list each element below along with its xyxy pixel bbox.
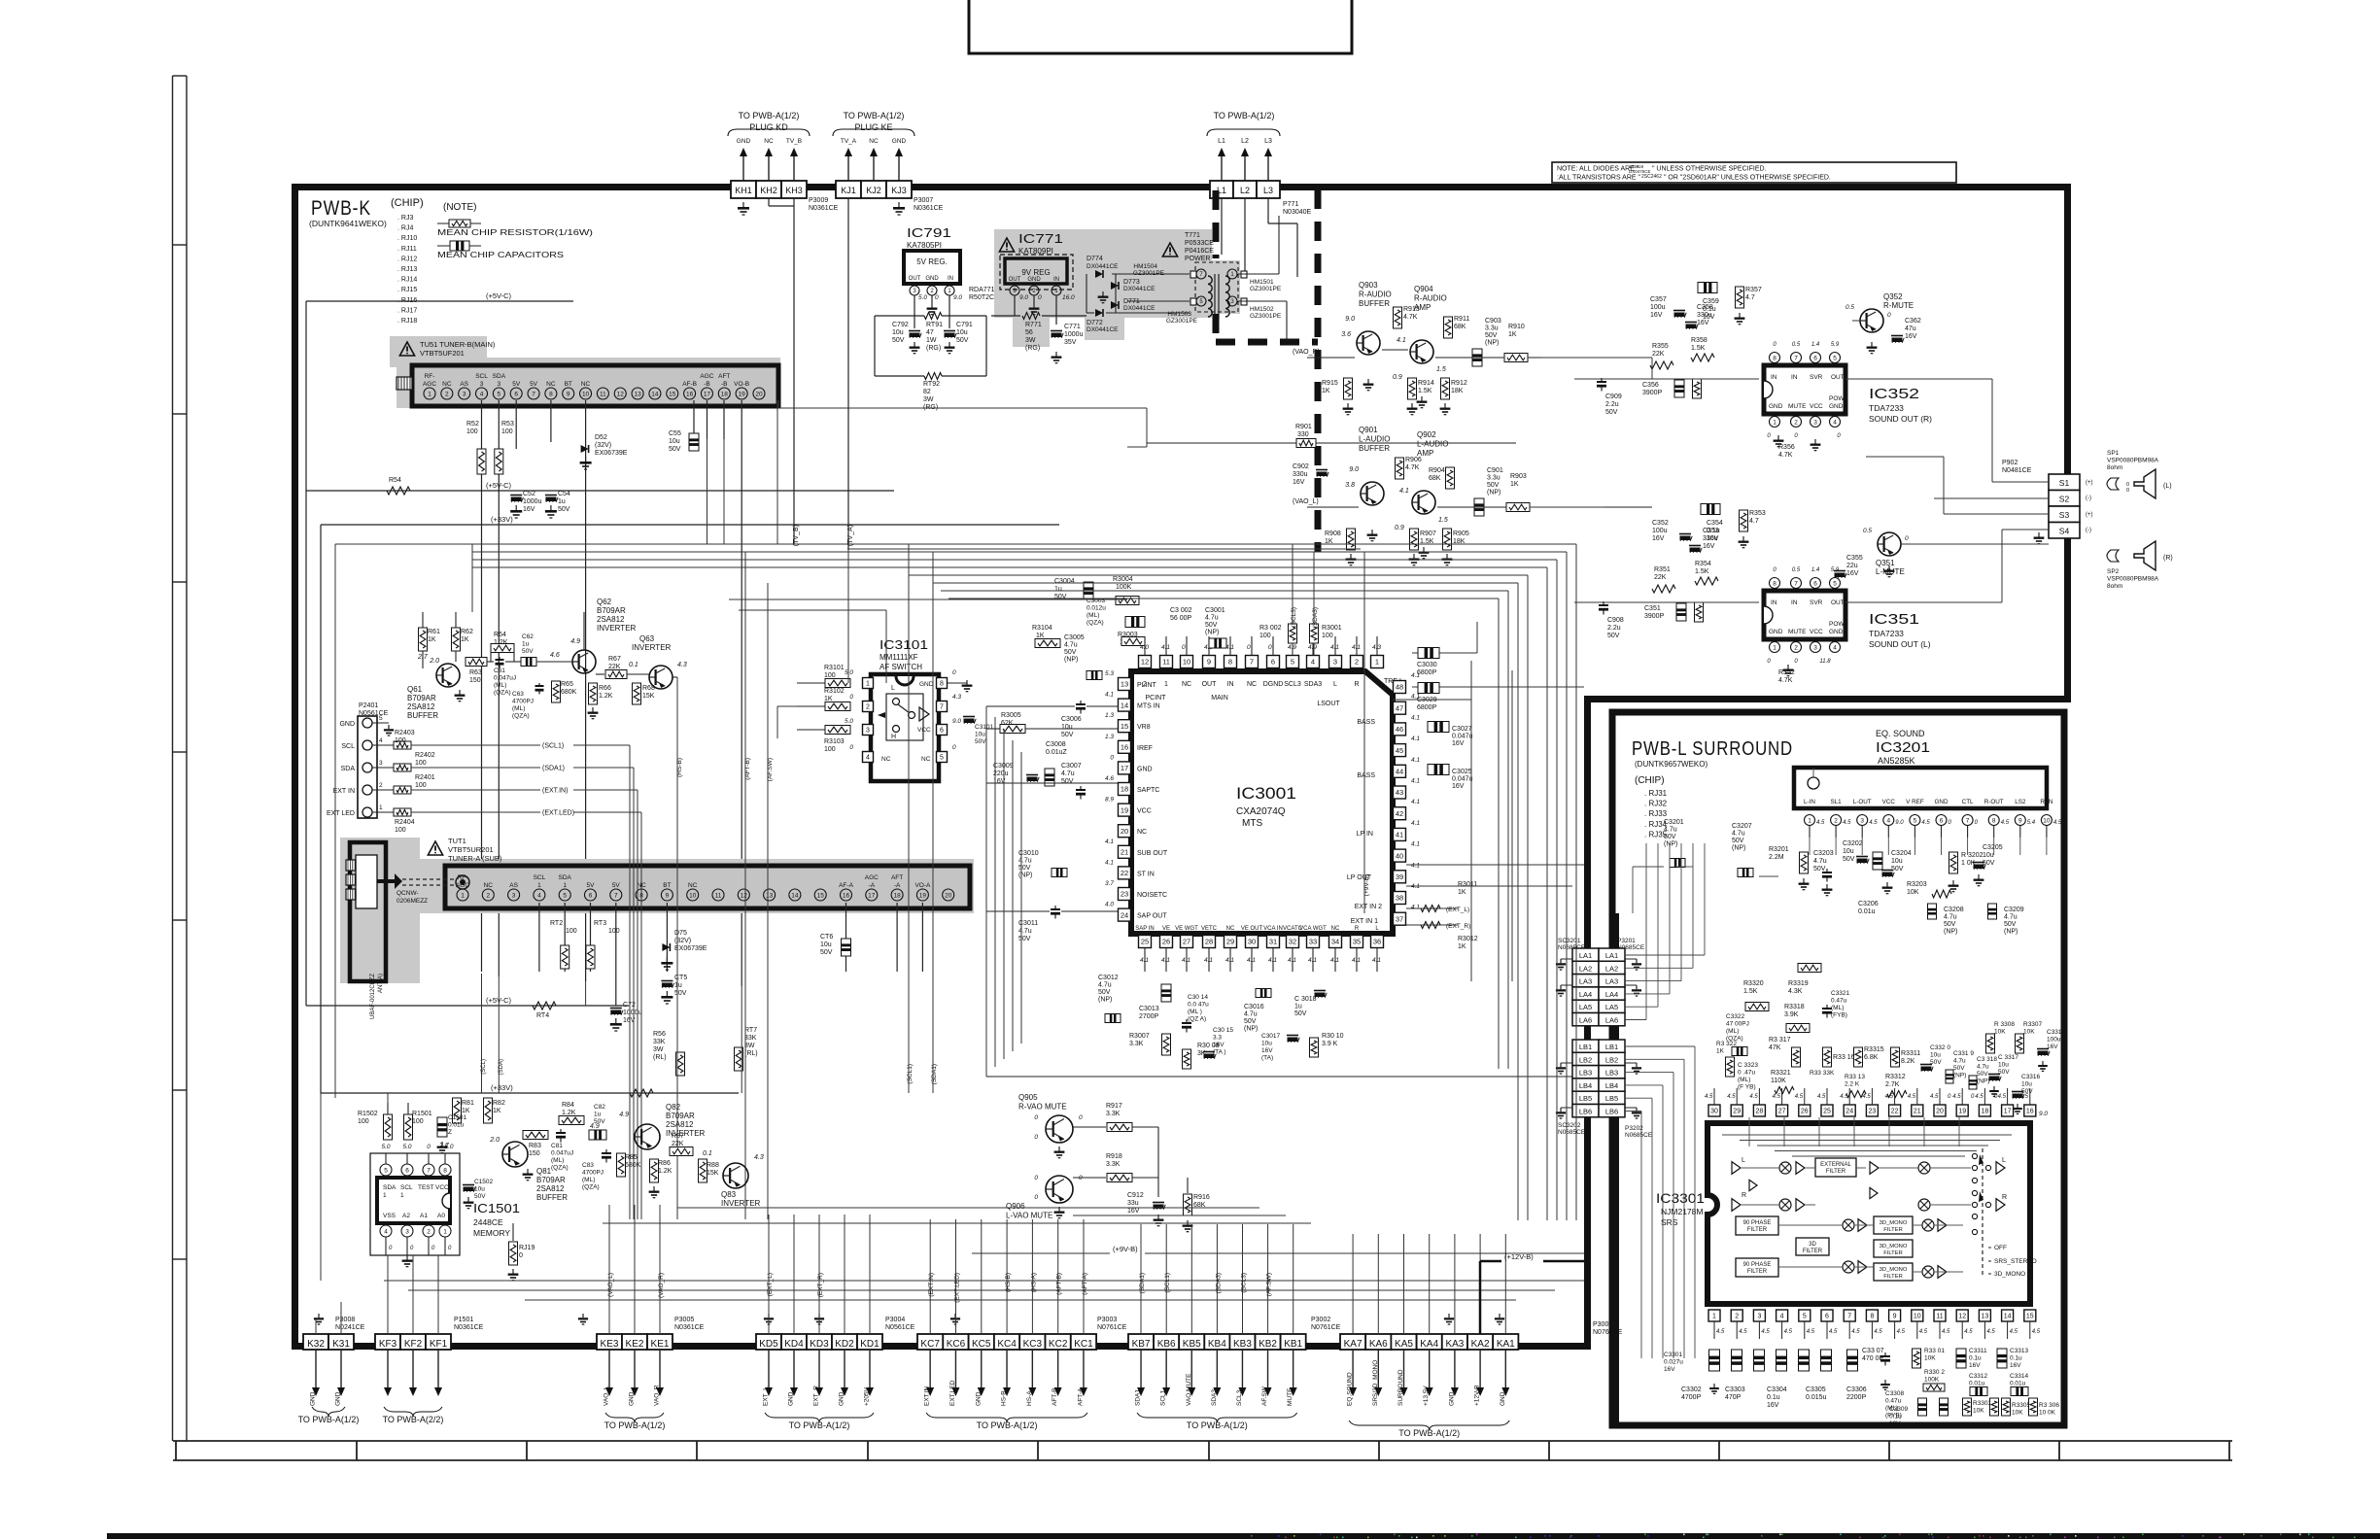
resistor RT91 [924, 313, 943, 353]
svg-text:MEAN CHIP CAPACITORS: MEAN CHIP CAPACITORS [437, 250, 564, 259]
transistor Q81 buffer [438, 1137, 568, 1202]
svg-text:TUT1: TUT1 [448, 837, 466, 845]
svg-text:1.5K: 1.5K [1691, 345, 1706, 352]
svg-text:R3307: R3307 [2023, 1021, 2043, 1028]
svg-text:GZ3001PE: GZ3001PE [1250, 313, 1282, 320]
svg-text:R903: R903 [1510, 473, 1527, 480]
svg-text:IN: IN [1227, 681, 1234, 688]
PWB-L board border [1612, 712, 2064, 1425]
svg-text:LB4: LB4 [1579, 1081, 1592, 1090]
svg-text:SCL: SCL [534, 874, 546, 881]
svg-text:SRS/3D_MONO: SRS/3D_MONO [1372, 1360, 1379, 1406]
svg-text:1000u: 1000u [623, 1010, 642, 1016]
svg-text:S1: S1 [2059, 478, 2070, 488]
svg-text:C3005: C3005 [1064, 634, 1085, 641]
PWB-K board border [292, 184, 2071, 1350]
svg-text:DX0441CE: DX0441CE [1087, 263, 1119, 270]
capacitor C81 [551, 1129, 573, 1172]
svg-text:R3 317: R3 317 [1769, 1037, 1791, 1044]
IC351 passives cluster [1599, 504, 1863, 685]
svg-text:21: 21 [1914, 1109, 1921, 1115]
svg-text:VCA WGT: VCA WGT [1299, 926, 1327, 932]
svg-text:90 PHASE: 90 PHASE [1743, 1220, 1772, 1226]
svg-text:KA4: KA4 [1420, 1339, 1438, 1350]
svg-text:TO PWB-A(1/2): TO PWB-A(1/2) [739, 111, 800, 120]
svg-text:EXT LED: EXT LED [327, 810, 355, 817]
svg-text:R63: R63 [469, 669, 482, 676]
svg-text:P1501: P1501 [454, 1317, 473, 1323]
svg-text:SOUND OUT (L): SOUND OUT (L) [1869, 639, 1931, 649]
svg-text:R355: R355 [1652, 343, 1669, 350]
svg-text:BUFFER: BUFFER [536, 1193, 568, 1202]
svg-text:C3206: C3206 [1858, 901, 1879, 907]
svg-text:22: 22 [1891, 1109, 1899, 1115]
transistor Q903 R-AUDIO BUFFER [1341, 281, 1392, 391]
svg-text:5: 5 [1833, 580, 1837, 587]
svg-text:100: 100 [412, 1118, 424, 1125]
svg-text:R3305: R3305 [2012, 1402, 2031, 1409]
svg-text:Q903: Q903 [1359, 281, 1378, 290]
svg-text:C3004: C3004 [1054, 578, 1075, 585]
svg-text:VTBT5UR201: VTBT5UR201 [448, 845, 494, 854]
svg-text:(DUNTK9641WEKO): (DUNTK9641WEKO) [309, 219, 387, 228]
svg-text:. RJ11: . RJ11 [397, 246, 417, 253]
svg-text:RT7: RT7 [744, 1027, 757, 1034]
svg-text:(EXT_L): (EXT_L) [1446, 907, 1469, 913]
svg-text:8.9: 8.9 [1105, 797, 1114, 804]
svg-text:NC: NC [484, 882, 494, 889]
svg-text:TO PWB-A(1/2): TO PWB-A(1/2) [1214, 111, 1275, 120]
svg-text:10u: 10u [474, 1186, 485, 1193]
svg-text:4.5: 4.5 [1869, 820, 1878, 826]
svg-text:C3312: C3312 [1969, 1373, 1988, 1380]
svg-text:4.1: 4.1 [1352, 957, 1361, 964]
svg-text:4.7u: 4.7u [1064, 642, 1078, 649]
svg-text:POW: POW [1829, 621, 1845, 628]
svg-text:C332 0: C332 0 [1930, 1044, 1950, 1051]
svg-text:3.7: 3.7 [1105, 880, 1114, 887]
svg-text:4.1: 4.1 [1330, 644, 1339, 651]
svg-text:R330 2: R330 2 [1924, 1369, 1945, 1376]
PWB-L title [1632, 738, 1793, 838]
svg-text:4: 4 [866, 755, 870, 762]
svg-text:4.7u: 4.7u [1061, 770, 1075, 777]
transistor Q904 R-AUDIO AMP [1393, 285, 1447, 408]
capacitor CT6 [820, 934, 851, 956]
svg-text:L-AUDIO: L-AUDIO [1417, 440, 1448, 449]
svg-text:4.5: 4.5 [1919, 1329, 1928, 1335]
svg-text:R906: R906 [1405, 457, 1422, 463]
svg-text:50V: 50V [1944, 921, 1956, 928]
svg-text:9: 9 [1207, 658, 1211, 667]
svg-text:GND: GND [1769, 403, 1783, 410]
svg-text:(TA): (TA) [1261, 1055, 1273, 1062]
svg-text:CT6: CT6 [820, 934, 833, 941]
svg-text:R84: R84 [562, 1102, 574, 1109]
svg-text:CTL: CTL [1962, 799, 1974, 805]
svg-text:P3202: P3202 [1625, 1125, 1643, 1132]
resistor R771 [1022, 313, 1042, 353]
svg-text:R-MUTE: R-MUTE [1883, 301, 1914, 310]
IC3301 bottom pins [1708, 1310, 2041, 1339]
svg-text:13: 13 [1121, 680, 1128, 689]
svg-text:48: 48 [1396, 683, 1403, 692]
svg-text:C3012: C3012 [1098, 975, 1119, 981]
speaker SP2 [2107, 541, 2173, 590]
svg-text:1: 1 [1808, 817, 1811, 824]
svg-text:50V: 50V [820, 949, 833, 956]
svg-text:2SC2462: 2SC2462 [1641, 174, 1662, 180]
svg-text:12: 12 [1958, 1314, 1966, 1320]
svg-text:Q901: Q901 [1359, 426, 1378, 434]
connector K32 K31 [298, 1314, 365, 1424]
note: mean chip resistor / capacitors [437, 202, 593, 259]
svg-text:9.0: 9.0 [1019, 294, 1028, 301]
svg-text:1K: 1K [461, 636, 469, 643]
svg-text:EXT IN: EXT IN [333, 788, 355, 795]
svg-text:0.047u: 0.047u [1452, 776, 1473, 783]
svg-text:1u: 1u [522, 641, 530, 648]
svg-text:0 .47u: 0 .47u [1738, 1070, 1755, 1077]
svg-text:C359: C359 [1703, 298, 1719, 305]
svg-text:LB4: LB4 [1605, 1081, 1618, 1090]
wire drops to bottom connectors [316, 1205, 1505, 1334]
svg-text:VCC: VCC [1882, 799, 1896, 805]
svg-text:0: 0 [1268, 644, 1272, 651]
svg-text:0.01u: 0.01u [1969, 1381, 1985, 1387]
svg-text:LA3: LA3 [1605, 977, 1618, 986]
svg-text:10u: 10u [669, 438, 680, 445]
svg-text:4.7u: 4.7u [1977, 1064, 1989, 1071]
svg-text:AFT: AFT [891, 874, 903, 881]
svg-text:R914: R914 [1418, 380, 1434, 387]
svg-text:100u: 100u [1652, 528, 1668, 534]
svg-text:FILTER: FILTER [1747, 1227, 1768, 1233]
svg-text:D771: D771 [1123, 298, 1140, 305]
sheet frame: bottom zone ruler [173, 1441, 2232, 1460]
svg-text:100: 100 [824, 746, 836, 753]
svg-text:4.7u: 4.7u [1664, 827, 1677, 834]
svg-text:L-AUDIO: L-AUDIO [1359, 435, 1390, 444]
svg-text:AGC: AGC [423, 381, 436, 388]
svg-text:R62: R62 [461, 629, 473, 635]
svg-text:4.5: 4.5 [1807, 1329, 1815, 1335]
svg-text:R908: R908 [1325, 530, 1341, 537]
svg-text:1K: 1K [428, 636, 436, 643]
svg-text:(+33V): (+33V) [491, 1083, 513, 1092]
svg-text:Q905: Q905 [1018, 1093, 1038, 1102]
svg-text:SDA: SDA [383, 1184, 397, 1191]
mute transistor Q351 [1863, 528, 1909, 577]
svg-text:Q902: Q902 [1417, 430, 1436, 439]
svg-text:AFT-A: AFT-A [1077, 1387, 1084, 1406]
svg-text:P902: P902 [2002, 460, 2018, 466]
sound out IC351 [1764, 567, 1931, 676]
svg-text:LB3: LB3 [1605, 1069, 1618, 1078]
transistor Q82 inverter [590, 1103, 706, 1149]
svg-text:3W: 3W [1025, 337, 1036, 344]
capacitor C83 [582, 1149, 611, 1191]
svg-text:1: 1 [1164, 681, 1168, 688]
svg-text:LB5: LB5 [1579, 1094, 1592, 1103]
svg-text:IC3201: IC3201 [1876, 739, 1930, 756]
svg-text:35: 35 [1353, 938, 1361, 946]
sheet frame: bottom black strip [107, 1533, 2380, 1539]
svg-text:16V: 16V [1846, 570, 1859, 577]
svg-text:TV_B: TV_B [786, 138, 802, 145]
svg-text:R356: R356 [1778, 444, 1795, 451]
svg-text:8: 8 [1773, 580, 1776, 587]
svg-text:C3314: C3314 [2010, 1373, 2029, 1380]
svg-text:(32V): (32V) [595, 442, 611, 449]
capacitor C792 [892, 322, 921, 354]
svg-text:SCL3: SCL3 [1236, 1389, 1243, 1406]
voltage regulator IC791 [904, 225, 1010, 301]
svg-text:2.0: 2.0 [429, 658, 439, 665]
svg-text:KE3: KE3 [601, 1339, 619, 1350]
svg-text:VCC: VCC [1810, 629, 1823, 635]
svg-text:C54: C54 [558, 491, 570, 497]
svg-text:R3311: R3311 [1901, 1050, 1920, 1057]
svg-text:4.5: 4.5 [1930, 1094, 1939, 1100]
svg-text:UBAF-0012CEZZ: UBAF-0012CEZZ [370, 974, 376, 1019]
svg-text:0.047uJ: 0.047uJ [494, 675, 516, 682]
svg-text:4.5: 4.5 [1942, 1329, 1950, 1335]
svg-text:0.1u: 0.1u [1969, 1355, 1982, 1362]
svg-text:4.5: 4.5 [1986, 1329, 1995, 1335]
svg-text:16: 16 [2026, 1109, 2034, 1115]
svg-text:3D_MONO: 3D_MONO [1994, 1271, 2025, 1278]
svg-text:0: 0 [1079, 1114, 1083, 1121]
svg-text:(+): (+) [2086, 480, 2093, 486]
svg-text:R3315: R3315 [1864, 1046, 1884, 1053]
svg-text:C3001: C3001 [1205, 607, 1225, 614]
svg-text:50V: 50V [1605, 409, 1618, 416]
svg-text:50V: 50V [1061, 732, 1074, 738]
svg-text:R916: R916 [1193, 1194, 1210, 1201]
svg-text:2: 2 [1735, 1314, 1739, 1320]
svg-text:GND: GND [339, 721, 355, 728]
wire PWB-L fan LB rows [1625, 1046, 1695, 1358]
svg-text:TO PWB-A(1/2): TO PWB-A(1/2) [844, 111, 905, 120]
svg-text:R56: R56 [653, 1031, 666, 1038]
svg-text:3D_MONO: 3D_MONO [1880, 1267, 1908, 1273]
svg-text:(ML): (ML) [582, 1177, 595, 1183]
resistor R903 [1506, 473, 1530, 512]
svg-text:4.5: 4.5 [1716, 1329, 1725, 1335]
svg-text:9: 9 [567, 391, 570, 397]
svg-text:10K: 10K [1907, 889, 1919, 896]
svg-text:VCC: VCC [1137, 808, 1152, 815]
svg-text:4.5: 4.5 [1975, 1094, 1983, 1100]
svg-text:(NP): (NP) [1098, 997, 1112, 1004]
svg-text:50V: 50V [1607, 633, 1620, 639]
svg-text:2.0: 2.0 [489, 1137, 500, 1144]
svg-text:KJ1: KJ1 [841, 186, 856, 195]
svg-text:R33 01: R33 01 [1924, 1348, 1945, 1354]
svg-text:(+9V-B): (+9V-B) [1363, 874, 1370, 896]
svg-text:R33 16: R33 16 [1833, 1054, 1855, 1061]
eq sound IC3201 [1794, 729, 2062, 838]
svg-text:R915: R915 [1322, 380, 1338, 387]
svg-text:100: 100 [501, 428, 513, 435]
svg-text:4.5: 4.5 [1952, 1094, 1961, 1100]
svg-text:(NP): (NP) [1664, 841, 1677, 848]
svg-text:KA1: KA1 [1497, 1339, 1515, 1350]
svg-text:1000u: 1000u [523, 498, 542, 505]
capacitor C903 [1472, 318, 1501, 366]
svg-text:SCL: SCL [341, 743, 355, 750]
svg-text:110K: 110K [1771, 1078, 1786, 1084]
svg-text:VE: VE [1162, 926, 1170, 932]
svg-text:1.5K: 1.5K [1418, 388, 1432, 394]
svg-text:R3303: R3303 [1973, 1400, 1992, 1407]
svg-text:VO-A: VO-A [914, 882, 931, 889]
svg-text:C356: C356 [1642, 382, 1659, 389]
svg-text:C791: C791 [956, 322, 973, 328]
svg-text:LA4: LA4 [1605, 990, 1618, 999]
svg-text:23: 23 [1121, 890, 1128, 899]
svg-text:4.1: 4.1 [1411, 757, 1420, 764]
svg-text:SDA1: SDA1 [1135, 1389, 1142, 1406]
svg-text:C3205: C3205 [1983, 844, 2003, 851]
svg-text:33: 33 [1309, 938, 1317, 946]
svg-text:0: 0 [1247, 644, 1251, 651]
svg-text:8: 8 [1773, 355, 1776, 361]
svg-text:0.047u: 0.047u [1452, 734, 1473, 740]
svg-text:(TA ): (TA ) [1213, 1049, 1226, 1056]
svg-text:C3017: C3017 [1261, 1033, 1281, 1040]
svg-text:L: L [891, 685, 895, 692]
svg-text:50V: 50V [1064, 649, 1077, 656]
svg-text:9.0: 9.0 [952, 718, 961, 725]
svg-text:R81: R81 [462, 1100, 474, 1107]
svg-text:(RL): (RL) [653, 1054, 667, 1061]
svg-text:5V: 5V [612, 882, 621, 889]
svg-text:2448CE: 2448CE [473, 1217, 503, 1227]
svg-text:(QZA): (QZA) [582, 1184, 600, 1191]
svg-text:GZ3001PE: GZ3001PE [1250, 286, 1282, 292]
svg-text:4.1: 4.1 [1411, 905, 1420, 911]
svg-text:SDA: SDA [493, 373, 506, 380]
svg-text:5V: 5V [530, 381, 538, 388]
svg-text:KA7805PI: KA7805PI [907, 241, 942, 250]
svg-text:VCC: VCC [435, 1184, 449, 1191]
svg-text:4.1: 4.1 [1105, 859, 1114, 866]
svg-text:27: 27 [1778, 1109, 1786, 1115]
wire verticals scl/sda to bottom [777, 544, 938, 1093]
svg-text:R33 13: R33 13 [1845, 1074, 1865, 1080]
svg-text:L3: L3 [1264, 138, 1272, 145]
svg-text:KH3: KH3 [785, 186, 803, 195]
svg-text:26: 26 [1162, 938, 1170, 946]
capacitor C1501 [437, 1114, 467, 1153]
svg-text:1: 1 [428, 391, 431, 397]
svg-text:C331 9: C331 9 [1953, 1050, 1974, 1057]
svg-text:5.0: 5.0 [402, 1144, 411, 1150]
svg-text:3: 3 [1860, 817, 1864, 824]
svg-text:(-): (-) [2086, 496, 2091, 501]
svg-text:15: 15 [669, 391, 676, 397]
svg-text:0: 0 [1034, 1114, 1038, 1121]
svg-text:21: 21 [1121, 848, 1128, 857]
svg-text:KA3: KA3 [1445, 1339, 1464, 1350]
svg-text:KD5: KD5 [759, 1339, 778, 1350]
svg-text:8: 8 [1870, 1314, 1874, 1320]
svg-text:1: 1 [1773, 644, 1776, 651]
svg-text:C908: C908 [1607, 617, 1624, 624]
svg-text:DX0441CE: DX0441CE [1087, 326, 1119, 333]
svg-text:QCNW-: QCNW- [397, 890, 419, 897]
svg-text:0.47u: 0.47u [1831, 998, 1847, 1005]
svg-text:DX0441CE: DX0441CE [1123, 305, 1156, 312]
svg-text:TDA7233: TDA7233 [1869, 629, 1904, 638]
svg-text:(R): (R) [2163, 555, 2173, 562]
svg-text:13: 13 [766, 892, 774, 899]
svg-text:R3102: R3102 [824, 688, 845, 695]
svg-text:15: 15 [1121, 722, 1128, 731]
svg-text:(HS-B): (HS-B) [1005, 1273, 1012, 1292]
svg-text:1u: 1u [594, 1112, 602, 1118]
svg-text:R3104: R3104 [1032, 625, 1052, 632]
svg-text:16V: 16V [1889, 1420, 1901, 1427]
svg-text:KD1: KD1 [860, 1339, 880, 1350]
svg-text:4: 4 [480, 391, 484, 397]
svg-text:T771: T771 [1185, 232, 1200, 239]
svg-text:KE1: KE1 [651, 1339, 670, 1350]
svg-text:GND: GND [1935, 799, 1949, 805]
svg-text:C3025: C3025 [1452, 769, 1472, 775]
svg-text:. RJ13: . RJ13 [397, 266, 417, 273]
svg-text:3: 3 [1757, 1314, 1761, 1320]
svg-text:Q62: Q62 [597, 598, 612, 606]
svg-text:R3101: R3101 [824, 665, 845, 671]
svg-text:P3007: P3007 [914, 197, 933, 204]
svg-text:10u: 10u [2021, 1081, 2032, 1088]
resistor R54 [387, 477, 410, 495]
svg-text:MM1111XF: MM1111XF [880, 653, 918, 662]
wire bus upper horizontals [472, 544, 1576, 1220]
svg-text:P3003: P3003 [1097, 1317, 1117, 1323]
svg-text:AFT: AFT [718, 373, 730, 380]
svg-text:10K: 10K [1924, 1355, 1936, 1362]
svg-text:5: 5 [940, 755, 944, 762]
svg-text:(TV_B): (TV_B) [793, 525, 800, 546]
svg-text:R911: R911 [1454, 316, 1469, 323]
svg-text:N0361CE: N0361CE [914, 205, 944, 212]
svg-text:3.3K: 3.3K [1129, 1041, 1144, 1047]
svg-text:23: 23 [1869, 1109, 1877, 1115]
wire audio to IC352 [1530, 321, 2049, 602]
svg-text:16V: 16V [1767, 1402, 1779, 1409]
svg-text:16V: 16V [1703, 314, 1715, 321]
svg-text:19: 19 [919, 892, 927, 899]
svg-text:IN: IN [1771, 599, 1777, 606]
svg-text:16V: 16V [1703, 543, 1715, 550]
svg-text:1.5: 1.5 [1436, 366, 1446, 373]
svg-text:R917: R917 [1106, 1103, 1122, 1110]
svg-text:680K: 680K [625, 1162, 641, 1169]
svg-text:NC: NC [581, 381, 591, 388]
svg-text:22K: 22K [1652, 351, 1665, 358]
svg-text:R912: R912 [1451, 380, 1467, 387]
svg-text:17: 17 [2004, 1109, 2012, 1115]
svg-text:10: 10 [689, 892, 697, 899]
transistor Q83 inverter [703, 1150, 764, 1208]
capacitor C791 [944, 322, 973, 354]
svg-text:28: 28 [1205, 938, 1213, 946]
svg-text:3.9K: 3.9K [1784, 1011, 1799, 1018]
